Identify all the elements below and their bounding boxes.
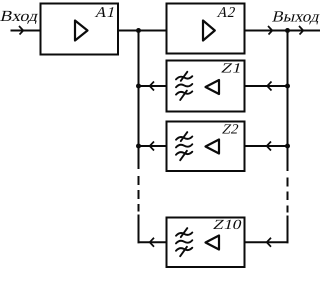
right bus: dash 3 xyxy=(287,206,289,213)
left bus: solid lower segment xyxy=(138,215,140,244)
right bus: solid lower segment xyxy=(287,216,289,244)
arrowhead on Z2 left wire xyxy=(150,142,154,151)
right bus: dash 2 xyxy=(287,192,289,201)
junction node at right bus top xyxy=(285,28,290,33)
wire: Z10 output to left bus xyxy=(138,241,167,243)
wire: Z2 output to left bus xyxy=(139,145,167,147)
junction node Z1 right xyxy=(285,84,290,89)
right bus: dash 1 xyxy=(287,178,289,187)
junction node Z2 left xyxy=(136,144,141,149)
junction node at left bus top xyxy=(136,28,141,33)
amplifier triangle in A2 xyxy=(203,21,215,41)
svg-text:Выход: Выход xyxy=(271,8,322,25)
block Z10 xyxy=(167,218,245,268)
svg-text:Вход: Вход xyxy=(0,8,40,25)
junction node Z2 right xyxy=(285,144,290,149)
wire: right bus to Z10 input xyxy=(245,241,289,243)
arrowhead on Z10 left wire xyxy=(150,238,154,247)
attenuator triangle in Z1 xyxy=(206,80,220,94)
svg-text:A1: A1 xyxy=(94,4,118,21)
arrowhead on Z2 right wire xyxy=(267,142,271,151)
attenuator triangle in Z10 xyxy=(206,236,220,250)
block Z1 xyxy=(167,61,245,112)
right bus: solid upper segment xyxy=(287,31,289,172)
left bus: solid upper segment xyxy=(138,31,140,170)
attenuator triangle in Z2 xyxy=(206,140,220,154)
wire: A1 output to A2 input xyxy=(118,30,167,32)
arrowhead on output wire (after junction) xyxy=(299,26,303,35)
left bus: dash 3 xyxy=(138,204,140,212)
wire: right bus to Z2 input xyxy=(245,145,288,147)
wire: output from A2 xyxy=(245,30,321,32)
junction node Z1 left xyxy=(136,84,141,89)
filter symbol in Z1 (three tildes, slashed) xyxy=(176,72,192,100)
wire: Z1 output to left bus xyxy=(139,85,167,87)
arrowhead on Z10 right wire xyxy=(267,238,271,247)
filter symbol in Z2 xyxy=(176,132,192,160)
arrowhead on input wire xyxy=(19,26,23,35)
block A1 xyxy=(41,4,119,55)
arrowhead on output wire (before junction) xyxy=(268,26,272,35)
wire: right bus to Z1 input xyxy=(245,85,288,87)
svg-text:Z10: Z10 xyxy=(212,217,244,233)
block Z2 xyxy=(167,122,245,172)
amplifier triangle in A1 xyxy=(75,21,88,41)
block A2 xyxy=(167,4,245,54)
svg-text:Z1: Z1 xyxy=(220,61,244,77)
filter symbol in Z10 xyxy=(176,228,192,256)
arrowhead on Z1 left wire xyxy=(150,82,154,91)
wire: input xyxy=(11,30,41,32)
arrowhead on Z1 right wire xyxy=(267,82,271,91)
left bus: dash 1 xyxy=(138,176,140,185)
left bus: dash 2 xyxy=(138,190,140,199)
